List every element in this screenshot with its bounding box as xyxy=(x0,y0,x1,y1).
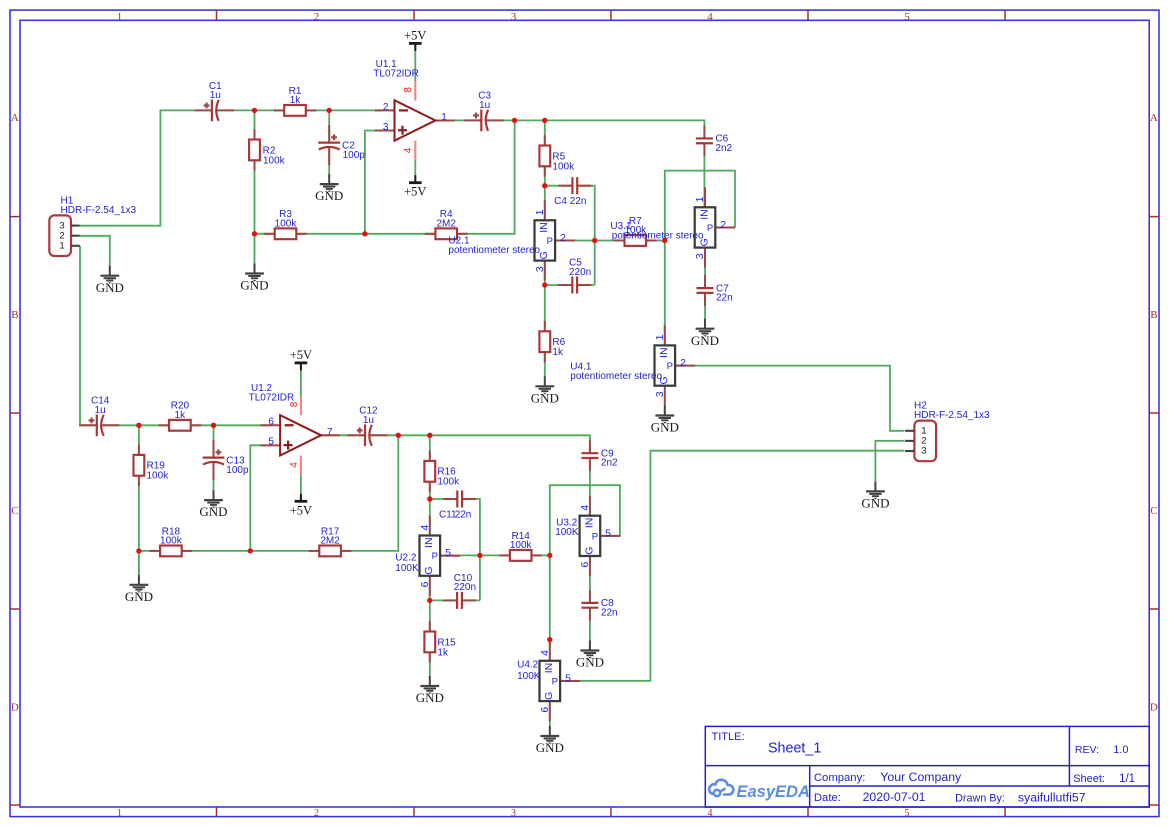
svg-text:A: A xyxy=(1150,112,1158,124)
svg-text:C: C xyxy=(1150,505,1157,517)
svg-text:22n: 22n xyxy=(601,607,618,618)
svg-text:1u: 1u xyxy=(210,90,221,101)
svg-text:1/1: 1/1 xyxy=(1119,773,1135,785)
svg-text:syaifullutfi57: syaifullutfi57 xyxy=(1018,790,1086,804)
svg-text:C: C xyxy=(11,505,18,517)
svg-text:1: 1 xyxy=(534,209,546,215)
svg-text:IN: IN xyxy=(543,663,555,674)
svg-text:EasyEDA: EasyEDA xyxy=(737,783,810,801)
svg-text:GND: GND xyxy=(861,496,889,511)
svg-text:GND: GND xyxy=(199,504,227,519)
svg-text:GND: GND xyxy=(576,655,604,670)
svg-text:HDR-F-2.54_1x3: HDR-F-2.54_1x3 xyxy=(914,410,990,421)
svg-text:TITLE:: TITLE: xyxy=(712,731,745,743)
svg-text:6: 6 xyxy=(419,581,431,587)
svg-text:8: 8 xyxy=(289,401,300,407)
svg-text:6: 6 xyxy=(268,417,274,428)
svg-text:GND: GND xyxy=(416,690,444,705)
svg-text:22n: 22n xyxy=(716,293,733,304)
svg-text:4: 4 xyxy=(579,505,591,511)
svg-text:potentiometer stereo: potentiometer stereo xyxy=(448,245,540,256)
svg-text:GND: GND xyxy=(536,740,564,755)
svg-text:+5V: +5V xyxy=(290,503,312,517)
svg-text:4: 4 xyxy=(419,525,431,531)
svg-text:1u: 1u xyxy=(95,405,106,416)
svg-text:100p: 100p xyxy=(343,150,366,161)
svg-text:GND: GND xyxy=(651,420,679,435)
svg-text:IN: IN xyxy=(423,537,435,548)
svg-text:2: 2 xyxy=(314,808,319,819)
svg-text:100k: 100k xyxy=(275,218,298,229)
svg-text:P: P xyxy=(667,361,673,372)
svg-text:G: G xyxy=(423,566,435,574)
svg-text:3: 3 xyxy=(383,122,389,133)
svg-text:GND: GND xyxy=(96,280,124,295)
svg-text:4: 4 xyxy=(289,462,300,468)
svg-text:U4.2: U4.2 xyxy=(517,659,539,670)
svg-text:1u: 1u xyxy=(479,100,490,111)
svg-text:1: 1 xyxy=(59,241,64,252)
svg-text:+5V: +5V xyxy=(404,28,426,42)
svg-text:6: 6 xyxy=(539,707,551,713)
svg-text:7: 7 xyxy=(327,427,333,438)
svg-text:GND: GND xyxy=(125,589,153,604)
svg-text:4: 4 xyxy=(708,808,713,819)
svg-text:100k: 100k xyxy=(552,161,575,172)
svg-text:100k: 100k xyxy=(263,156,286,167)
svg-text:2M2: 2M2 xyxy=(320,536,340,547)
svg-text:3: 3 xyxy=(921,446,926,457)
svg-text:100p: 100p xyxy=(226,465,249,476)
svg-text:GND: GND xyxy=(240,278,268,293)
svg-text:B: B xyxy=(1150,309,1157,321)
svg-text:100K: 100K xyxy=(555,527,579,538)
svg-text:6: 6 xyxy=(579,562,591,568)
svg-text:2M2: 2M2 xyxy=(436,218,456,229)
svg-text:100K: 100K xyxy=(395,563,419,574)
svg-text:3: 3 xyxy=(511,808,516,819)
svg-text:100k: 100k xyxy=(160,536,183,547)
svg-text:Company:: Company: xyxy=(814,772,866,784)
svg-text:2: 2 xyxy=(720,219,726,231)
svg-text:1u: 1u xyxy=(363,415,374,426)
svg-text:1k: 1k xyxy=(552,347,564,358)
svg-text:B: B xyxy=(11,309,18,321)
svg-text:P: P xyxy=(547,236,553,247)
svg-text:G: G xyxy=(583,547,595,555)
svg-text:1: 1 xyxy=(441,112,447,123)
svg-text:G: G xyxy=(543,692,555,700)
svg-text:GND: GND xyxy=(531,390,559,405)
svg-text:3: 3 xyxy=(694,253,706,259)
svg-text:4: 4 xyxy=(403,147,414,153)
svg-text:4: 4 xyxy=(539,650,551,656)
svg-text:1: 1 xyxy=(117,808,122,819)
svg-text:Sheet_1: Sheet_1 xyxy=(768,741,821,757)
svg-text:220n: 220n xyxy=(569,267,591,278)
svg-text:TL072IDR: TL072IDR xyxy=(373,69,419,80)
svg-text:D: D xyxy=(1150,702,1158,714)
svg-text:2: 2 xyxy=(383,102,389,113)
svg-text:5: 5 xyxy=(605,527,611,539)
svg-text:1: 1 xyxy=(694,196,706,202)
svg-text:3: 3 xyxy=(511,11,517,23)
svg-text:1k: 1k xyxy=(290,95,302,106)
svg-text:5: 5 xyxy=(268,437,274,448)
svg-text:potentiometer stereo: potentiometer stereo xyxy=(570,371,662,382)
svg-text:Sheet:: Sheet: xyxy=(1073,773,1105,785)
svg-text:2: 2 xyxy=(314,11,320,23)
svg-text:1k: 1k xyxy=(437,647,449,658)
svg-text:3: 3 xyxy=(654,391,666,397)
svg-text:C4: C4 xyxy=(554,196,567,207)
svg-text:IN: IN xyxy=(583,518,595,529)
svg-text:IN: IN xyxy=(698,209,710,220)
svg-text:1: 1 xyxy=(654,334,666,340)
svg-text:2n2: 2n2 xyxy=(601,458,618,469)
svg-text:5: 5 xyxy=(905,808,910,819)
svg-text:5: 5 xyxy=(904,11,910,23)
svg-text:TL072IDR: TL072IDR xyxy=(249,393,295,404)
svg-text:22n: 22n xyxy=(570,196,587,207)
svg-text:2: 2 xyxy=(560,232,566,244)
svg-text:1: 1 xyxy=(117,11,123,23)
svg-text:A: A xyxy=(11,112,19,124)
svg-text:5: 5 xyxy=(445,547,451,559)
svg-text:8: 8 xyxy=(403,87,414,93)
svg-text:GND: GND xyxy=(315,188,343,203)
svg-text:P: P xyxy=(707,223,713,234)
svg-text:Your Company: Your Company xyxy=(880,770,962,784)
svg-text:IN: IN xyxy=(538,222,550,233)
svg-text:P: P xyxy=(592,531,598,542)
svg-text:potentiometer stereo: potentiometer stereo xyxy=(612,231,704,242)
svg-text:100K: 100K xyxy=(517,671,541,682)
svg-text:GND: GND xyxy=(691,333,719,348)
svg-text:220n: 220n xyxy=(454,582,476,593)
svg-text:100k: 100k xyxy=(147,471,170,482)
svg-text:4: 4 xyxy=(707,11,713,23)
svg-text:2n2: 2n2 xyxy=(715,143,732,154)
svg-text:1k: 1k xyxy=(175,410,187,421)
svg-text:1.0: 1.0 xyxy=(1113,744,1128,756)
svg-text:3: 3 xyxy=(534,266,546,272)
svg-text:Drawn By:: Drawn By: xyxy=(955,792,1005,804)
svg-text:+5V: +5V xyxy=(290,348,312,362)
svg-text:22n: 22n xyxy=(455,510,472,521)
svg-text:REV:: REV: xyxy=(1075,744,1099,756)
svg-text:2: 2 xyxy=(680,357,686,369)
svg-text:2020-07-01: 2020-07-01 xyxy=(863,790,926,804)
svg-text:HDR-F-2.54_1x3: HDR-F-2.54_1x3 xyxy=(61,205,137,216)
svg-text:Date:: Date: xyxy=(814,792,841,804)
svg-text:P: P xyxy=(552,676,558,687)
svg-text:P: P xyxy=(432,551,438,562)
svg-text:5: 5 xyxy=(565,672,571,684)
svg-text:D: D xyxy=(11,702,19,714)
svg-text:IN: IN xyxy=(658,347,670,358)
svg-text:+5V: +5V xyxy=(404,185,426,199)
svg-text:U2.2: U2.2 xyxy=(395,553,417,564)
svg-text:100k: 100k xyxy=(437,477,460,488)
svg-text:100k: 100k xyxy=(510,540,533,551)
